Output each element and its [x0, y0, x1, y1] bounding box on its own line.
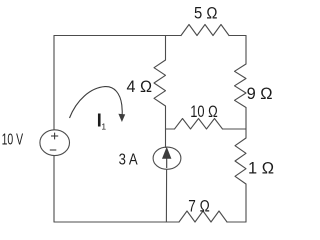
svg-text:5 Ω: 5 Ω: [194, 5, 218, 23]
wire left lower (bottom-left corner up to source): [53, 156, 55, 222]
current source I 3A (circle): [153, 147, 181, 169]
wire top-right (5-ohm to top-right corner): [229, 35, 246, 37]
current source arrow (up): [163, 148, 171, 168]
resistor R 7ohm (bottom): [179, 211, 227, 222]
svg-text:10 V: 10 V: [2, 132, 24, 149]
wire bottom-right (corner to 7-ohm): [227, 221, 246, 223]
svg-text:9 Ω: 9 Ω: [247, 85, 273, 103]
svg-text:1 Ω: 1 Ω: [248, 159, 274, 177]
wire top-left (top rail from left corner to 5-ohm): [54, 35, 181, 37]
voltage source polarity minus: [50, 149, 57, 151]
wire right middle (9-ohm to node with 10-ohm and 1-ohm): [245, 108, 247, 139]
wire node A to 10-ohm (horizontal branch start): [166, 128, 175, 130]
svg-text:7 Ω: 7 Ω: [188, 198, 210, 216]
wire right lower (1-ohm to bottom-right corner): [245, 184, 247, 222]
resistor R 9ohm (right upper): [235, 64, 247, 108]
wire middle (4-ohm down to node of 10-ohm): [165, 108, 167, 148]
voltage source V1 10V (circle): [40, 130, 70, 156]
resistor R 1ohm (right lower): [235, 138, 246, 184]
voltage source polarity plus: [50, 133, 58, 150]
resistor R 4ohm (middle branch): [154, 60, 166, 108]
wire bottom-left (7-ohm to bottom-left corner): [54, 221, 179, 223]
svg-text:4 Ω: 4 Ω: [127, 78, 153, 96]
wire left upper (source up to top-left corner): [53, 36, 55, 130]
wire 10-ohm to right rail: [223, 128, 247, 130]
svg-text:I1: I1: [97, 111, 107, 132]
resistor R 5ohm (top): [181, 25, 229, 36]
svg-text:3 A: 3 A: [119, 151, 138, 168]
resistor R 10ohm (middle horizontal): [175, 119, 223, 130]
wire right upper (corner down to 9-ohm): [245, 36, 247, 65]
wire middle top (top rail junction down to 4-ohm): [165, 36, 167, 61]
mesh current arrow I1 (clockwise arc): [70, 87, 123, 118]
wire middle bottom (current source to bottom rail): [165, 169, 167, 222]
svg-text:10 Ω: 10 Ω: [190, 103, 218, 121]
